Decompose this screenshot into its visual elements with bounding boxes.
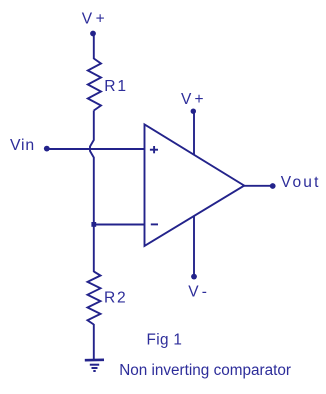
terminal dot Vout	[270, 183, 276, 189]
wire R1 to node A with hop over Vin wire	[90, 111, 94, 223]
wire op-amp V- supply pin	[193, 216, 195, 275]
wire R2 to ground	[93, 324, 95, 361]
svg-text:Vout: Vout	[281, 174, 321, 191]
op-amp non-inverting input marker (+)	[150, 146, 158, 153]
terminal dot op-amp V+	[191, 109, 196, 114]
svg-text:V-: V-	[188, 283, 211, 300]
terminal dot V+ top	[90, 31, 96, 37]
svg-text:Fig 1: Fig 1	[147, 332, 183, 349]
op-amp inverting input marker (-)	[151, 223, 158, 225]
svg-text:V+: V+	[181, 91, 207, 108]
resistor R2	[88, 272, 101, 325]
svg-text:V+: V+	[82, 11, 109, 28]
svg-text:Vin: Vin	[10, 137, 35, 154]
resistor R1	[88, 59, 101, 111]
svg-text:R1: R1	[104, 78, 128, 95]
terminal dot op-amp V-	[191, 274, 197, 280]
wire op-amp output	[244, 185, 271, 187]
junction node A (R1-R2 divider)	[91, 222, 96, 227]
wire node A to op-amp inverting input	[94, 224, 145, 226]
svg-text:Non inverting comparator: Non inverting comparator	[119, 362, 291, 379]
ground	[85, 360, 104, 371]
wire V+ to R1	[93, 34, 95, 59]
terminal dot Vin	[44, 146, 50, 152]
wire Vin to op-amp non-inverting input	[48, 148, 145, 150]
op-amp U1	[145, 124, 245, 246]
wire op-amp V+ supply pin	[193, 112, 195, 155]
svg-text:R2: R2	[104, 290, 128, 307]
wire node A to R2	[93, 225, 95, 272]
